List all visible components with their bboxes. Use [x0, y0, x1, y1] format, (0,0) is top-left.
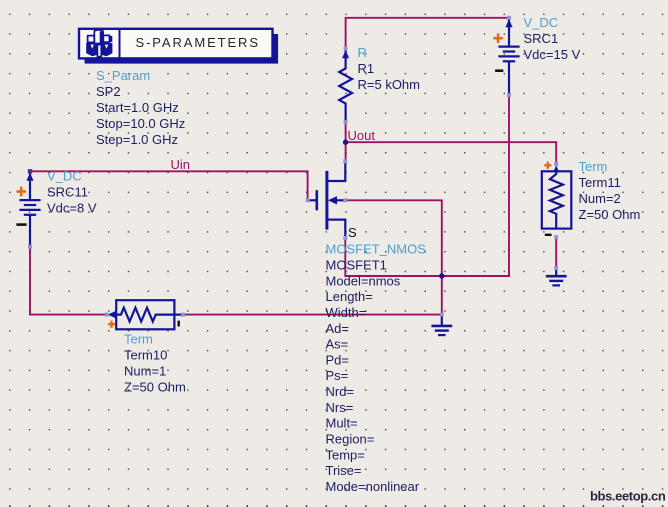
- wire: SRC11 minus down and right to Term10 pin1: [30, 247, 107, 315]
- svg-text:Mode=nonlinear: Mode=nonlinear: [326, 479, 420, 494]
- svg-text:R=5 kOhm: R=5 kOhm: [358, 77, 421, 92]
- labels MOSFET_NMOS MOSFET1 parameters: [326, 242, 427, 494]
- svg-text:Stop=10.0 GHz: Stop=10.0 GHz: [96, 116, 185, 131]
- DC source V_DC SRC1: [493, 18, 519, 95]
- svg-text:S_Param: S_Param: [96, 68, 150, 83]
- wire net Uout: node to Term11 pin1: [346, 142, 557, 164]
- DC source V_DC SRC11: [16, 171, 40, 247]
- svg-text:SP2: SP2: [96, 84, 121, 99]
- resistor R1: [339, 49, 352, 123]
- svg-text:Uout: Uout: [348, 128, 376, 143]
- svg-text:R1: R1: [358, 61, 375, 76]
- svg-text:Ad=: Ad=: [326, 321, 350, 336]
- svg-text:As=: As=: [326, 337, 349, 352]
- svg-text:Region=: Region=: [326, 432, 375, 447]
- node Uout junction: [343, 140, 348, 145]
- wire: Term11 pin2 to ground: [555, 237, 557, 268]
- svg-text:Nrs=: Nrs=: [326, 400, 354, 415]
- svg-text:Num=2: Num=2: [579, 191, 621, 206]
- wire: MOSFET bulk right and down to ground: [345, 200, 442, 314]
- svg-text:R: R: [358, 45, 367, 60]
- labels R R1: [358, 45, 421, 92]
- labels V_DC SRC11: [47, 169, 97, 216]
- svg-text:Uin: Uin: [171, 157, 191, 172]
- svg-text:V_DC: V_DC: [524, 15, 559, 30]
- svg-text:Pd=: Pd=: [326, 352, 350, 367]
- svg-text:Nrd=: Nrd=: [326, 384, 355, 399]
- labels Term Term11: [579, 159, 641, 222]
- port Term11: [542, 162, 572, 235]
- junction SRC11 top: [28, 169, 32, 173]
- svg-text:Start=1.0 GHz: Start=1.0 GHz: [96, 100, 179, 115]
- labels V_DC SRC1: [524, 15, 581, 62]
- svg-text:Model=nmos: Model=nmos: [326, 273, 401, 288]
- svg-text:Term: Term: [579, 159, 608, 174]
- wire: R1 bottom to Uout node: [345, 122, 347, 142]
- svg-text:SRC11: SRC11: [47, 185, 88, 200]
- S-PARAMETERS simulation controller box: [79, 29, 278, 64]
- svg-text:bbs.eetop.cn: bbs.eetop.cn: [590, 489, 666, 504]
- labels Term Term10: [124, 332, 186, 395]
- svg-text:S: S: [348, 225, 357, 240]
- svg-text:Mult=: Mult=: [326, 416, 358, 431]
- wire: MOSFET source down and right to junction: [345, 238, 442, 276]
- port Term10: [108, 300, 183, 329]
- svg-text:SRC1: SRC1: [524, 31, 559, 46]
- wire net Uin: SRC11 plus to MOSFET gate: [30, 171, 308, 200]
- svg-text:MOSFET1: MOSFET1: [326, 257, 387, 272]
- wire: Uout node down to MOSFET drain: [345, 142, 347, 161]
- transistor MOSFET1 (NMOS): [308, 161, 346, 238]
- bottom partial grid dot row: [9, 505, 663, 507]
- svg-text:Vdc=8 V: Vdc=8 V: [47, 201, 97, 216]
- svg-text:Term: Term: [124, 332, 153, 347]
- ground below MOSFET source node: [431, 315, 452, 336]
- svg-text:Temp=: Temp=: [326, 447, 365, 462]
- pins: [28, 16, 558, 317]
- svg-text:Num=1: Num=1: [124, 364, 166, 379]
- svg-text:Length=: Length=: [326, 289, 373, 304]
- ground below Term11: [546, 268, 567, 285]
- wire: SRC1 minus down to source node: [442, 95, 509, 276]
- svg-text:Ps=: Ps=: [326, 368, 349, 383]
- S-parameter sweep settings S_Param SP2: [96, 68, 185, 147]
- wire: Term10 pin2 right to ground node: [183, 314, 442, 316]
- svg-text:Z=50 Ohm: Z=50 Ohm: [124, 380, 186, 395]
- svg-text:V_DC: V_DC: [47, 169, 82, 184]
- S-PARAMETERS gear icon: [88, 30, 110, 44]
- svg-text:Trise=: Trise=: [326, 463, 362, 478]
- svg-text:Vdc=15 V: Vdc=15 V: [524, 47, 581, 62]
- svg-text:Width=: Width=: [326, 305, 367, 320]
- junction source node: [439, 273, 444, 278]
- svg-text:S-PARAMETERS: S-PARAMETERS: [136, 35, 260, 50]
- svg-text:Term11: Term11: [579, 175, 621, 190]
- svg-text:Step=1.0 GHz: Step=1.0 GHz: [96, 132, 178, 147]
- wire: top rail R1 top to SRC1 plus: [346, 18, 509, 49]
- svg-text:Term10: Term10: [124, 348, 167, 363]
- svg-text:MOSFET_NMOS: MOSFET_NMOS: [326, 242, 427, 257]
- svg-text:Z=50 Ohm: Z=50 Ohm: [579, 207, 641, 222]
